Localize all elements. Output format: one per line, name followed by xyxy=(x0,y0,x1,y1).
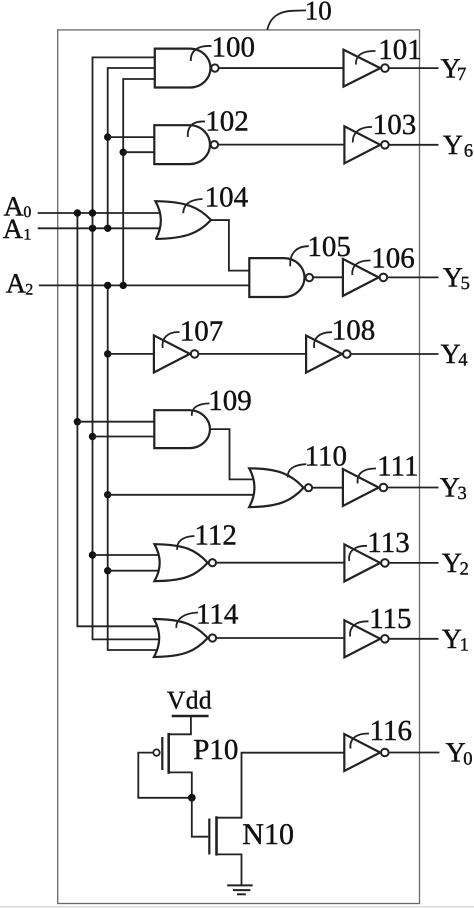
nand gate 102 xyxy=(154,125,210,164)
transistor P10 channel bar xyxy=(167,733,170,774)
wire node to N10 gate xyxy=(192,798,208,837)
bubble of inverter 115 xyxy=(381,635,389,643)
wire P10 gate feedback xyxy=(138,753,192,798)
bubble of inverter 107 xyxy=(191,350,199,358)
svg-text:Vdd: Vdd xyxy=(167,686,212,715)
svg-text:101: 101 xyxy=(378,34,422,66)
svg-text:2: 2 xyxy=(460,560,469,580)
block 10 boundary xyxy=(58,30,420,904)
wire nand105 to inv106 xyxy=(313,276,343,278)
svg-text:105: 105 xyxy=(307,231,351,263)
wire nor114 to inv115 xyxy=(216,637,344,639)
wire inv101 to Y7 xyxy=(389,67,439,69)
wire vertical bus V1 (A0 net, x=77.4) xyxy=(77,213,160,626)
nand gate 100 xyxy=(155,49,211,88)
label arc 114 xyxy=(176,613,198,628)
node dot V4 NAND102 in2 xyxy=(120,149,127,156)
and gate 109 xyxy=(154,410,210,448)
svg-text:109: 109 xyxy=(208,385,252,417)
svg-text:P10: P10 xyxy=(193,734,238,766)
node dot V3a NAND102 in1 xyxy=(104,133,111,140)
svg-text:111: 111 xyxy=(377,451,418,483)
Vdd rail bar xyxy=(172,715,209,717)
wire nor110 to inv111 xyxy=(312,487,343,489)
svg-text:Y: Y xyxy=(443,130,463,161)
label arc 108 xyxy=(314,332,332,348)
label arc 105 xyxy=(290,246,309,266)
svg-text:1: 1 xyxy=(23,227,31,244)
wire inv108 to Y4 xyxy=(351,353,439,355)
wire or104 output to nand105 in1 xyxy=(211,220,251,271)
inverter 111 xyxy=(343,469,379,506)
label arc 107 xyxy=(162,332,179,348)
svg-text:107: 107 xyxy=(180,315,224,347)
bubble of inverter 113 xyxy=(381,559,389,567)
svg-text:115: 115 xyxy=(369,603,411,635)
inverter 113 xyxy=(344,544,380,581)
svg-text:116: 116 xyxy=(370,715,412,747)
label arc 104 xyxy=(183,199,202,213)
svg-text:100: 100 xyxy=(212,31,256,63)
svg-text:114: 114 xyxy=(196,598,239,630)
bubble of nor 112 xyxy=(209,559,216,566)
wire A0 horizontal xyxy=(38,212,163,214)
inverter 103 xyxy=(344,126,380,163)
svg-text:6: 6 xyxy=(464,142,473,162)
wire N10 drain up to inverter116 input xyxy=(217,753,345,818)
bubble of inverter 101 xyxy=(381,64,389,72)
wire Vdd to P10 source xyxy=(169,716,191,734)
label arc 100 xyxy=(191,46,212,61)
bubble of inverter 111 xyxy=(380,484,388,492)
svg-text:108: 108 xyxy=(332,315,376,347)
node dot V4-A2 xyxy=(120,282,127,289)
svg-text:104: 104 xyxy=(205,181,249,213)
label arc 112 xyxy=(177,536,194,550)
wire tap to inverter107 xyxy=(108,353,155,355)
node dot V3b tap NOR110 in2 xyxy=(104,491,111,498)
label arc 113 xyxy=(349,546,367,561)
svg-text:106: 106 xyxy=(371,242,415,274)
nor gate 110 xyxy=(249,468,304,507)
inverter 101 xyxy=(344,50,381,87)
node dot V3b tap NOR112 in2 xyxy=(104,567,111,574)
bubble of nor 110 xyxy=(305,484,312,491)
bubble of nand 105 xyxy=(306,274,313,281)
bubble of inverter 116 xyxy=(381,749,389,757)
label arc 111 xyxy=(358,468,376,483)
transistor P10 gate bar xyxy=(161,737,163,770)
bubble of P10 gate xyxy=(153,749,159,755)
wire and109 output to nor110 in1 xyxy=(210,429,257,479)
node dot V1-A0 xyxy=(74,209,81,216)
svg-text:113: 113 xyxy=(367,527,409,559)
svg-text:A: A xyxy=(3,214,24,245)
svg-text:5: 5 xyxy=(461,274,470,294)
inverter 116 xyxy=(344,734,380,771)
label arc 116 xyxy=(350,733,369,748)
or gate 104 xyxy=(155,201,211,239)
inverter 107 xyxy=(154,335,190,372)
svg-text:N10: N10 xyxy=(242,818,294,851)
wire inv115 to Y1 xyxy=(389,638,439,640)
bubble of nor 114 xyxy=(209,634,216,641)
ground symbol xyxy=(227,884,253,886)
wire tap to NAND102 in2 xyxy=(123,151,154,153)
svg-text:3: 3 xyxy=(458,484,467,504)
wire inv107 to inv108 xyxy=(199,353,307,355)
inverter 115 xyxy=(344,620,380,657)
bubble of inverter 106 xyxy=(380,274,388,282)
transistor N10 gate bar xyxy=(208,819,210,855)
svg-text:110: 110 xyxy=(305,440,347,472)
label arc 115 xyxy=(350,621,368,636)
node dot V3b-A2 xyxy=(104,282,111,289)
svg-text:103: 103 xyxy=(373,109,417,141)
svg-text:4: 4 xyxy=(458,351,467,371)
wire inv103 to Y6 xyxy=(389,144,439,146)
label arc 101 xyxy=(356,51,376,65)
bubble of inverter 108 xyxy=(343,350,351,358)
wire tap to NOR112 in1 xyxy=(93,554,163,556)
bubble of inverter 103 xyxy=(381,141,389,149)
node dot V3a-A1 xyxy=(104,225,111,232)
label arc 106 xyxy=(352,260,370,275)
wire A1 horizontal xyxy=(38,227,163,229)
wire nand102 to inv103 xyxy=(218,144,344,146)
svg-text:112: 112 xyxy=(194,519,236,551)
node dot V2 tap gate112 in1 xyxy=(89,551,96,558)
svg-text:A: A xyxy=(6,268,27,299)
wire vertical bus V4 (x=123.2) xyxy=(123,79,155,285)
wire tap to NOR112 in2 xyxy=(108,570,163,572)
svg-text:0: 0 xyxy=(463,749,472,769)
wire tap to AND109 in2 xyxy=(93,436,156,438)
bubble of nand 100 xyxy=(211,64,218,71)
wire inv116 to Y0 xyxy=(389,752,440,754)
svg-text:7: 7 xyxy=(457,65,466,85)
wire tap to AND109 in1 xyxy=(77,421,155,423)
wire inv106 to Y5 xyxy=(387,276,438,278)
inverter 108 xyxy=(306,336,342,373)
node dot V2-A1 xyxy=(89,225,96,232)
wire vertical bus V3a (x=107.7 upper) xyxy=(108,68,155,228)
svg-text:2: 2 xyxy=(25,282,33,299)
leader line to label 10 xyxy=(267,10,306,29)
node dot V3b tap inverter107 xyxy=(104,350,111,357)
wire tap to NAND102 in1 xyxy=(108,136,155,138)
wire tap to NOR110 in2 xyxy=(108,494,257,496)
nor gate 114 xyxy=(154,619,208,657)
label arc 102 xyxy=(188,121,205,137)
label arc 103 xyxy=(353,127,372,143)
wire P10 drain down to node xyxy=(169,772,192,797)
wire inv113 to Y2 xyxy=(389,562,439,564)
svg-text:0: 0 xyxy=(23,204,31,221)
wire A2 horizontal xyxy=(39,284,251,286)
wire N10 source to ground xyxy=(217,854,242,885)
bubble of nand 102 xyxy=(211,141,218,148)
wire vertical bus V2 (x=92.5) xyxy=(93,57,161,639)
node dot V1 tap gate109 in1 xyxy=(74,418,81,425)
svg-text:10: 10 xyxy=(305,0,332,25)
label arc 109 xyxy=(192,403,210,415)
wire inv111 to Y3 xyxy=(387,487,438,489)
inverter 106 xyxy=(343,259,379,296)
node dot V2 tap gate109 in2 xyxy=(89,433,96,440)
svg-text:1: 1 xyxy=(460,636,469,656)
transistor N10 channel bar xyxy=(215,816,218,855)
wire nand100 to inv101 xyxy=(219,67,344,69)
svg-text:102: 102 xyxy=(205,106,249,138)
wire nor112 to inv113 xyxy=(216,562,344,564)
label arc 110 xyxy=(288,464,307,477)
wire vertical bus V3b (A2 net, x=107.7 lower) xyxy=(108,285,161,650)
node dot P10 drain xyxy=(188,794,196,802)
node dot V2-A0 xyxy=(89,209,96,216)
nor gate 112 xyxy=(154,544,207,581)
nand gate 105 xyxy=(249,258,304,297)
